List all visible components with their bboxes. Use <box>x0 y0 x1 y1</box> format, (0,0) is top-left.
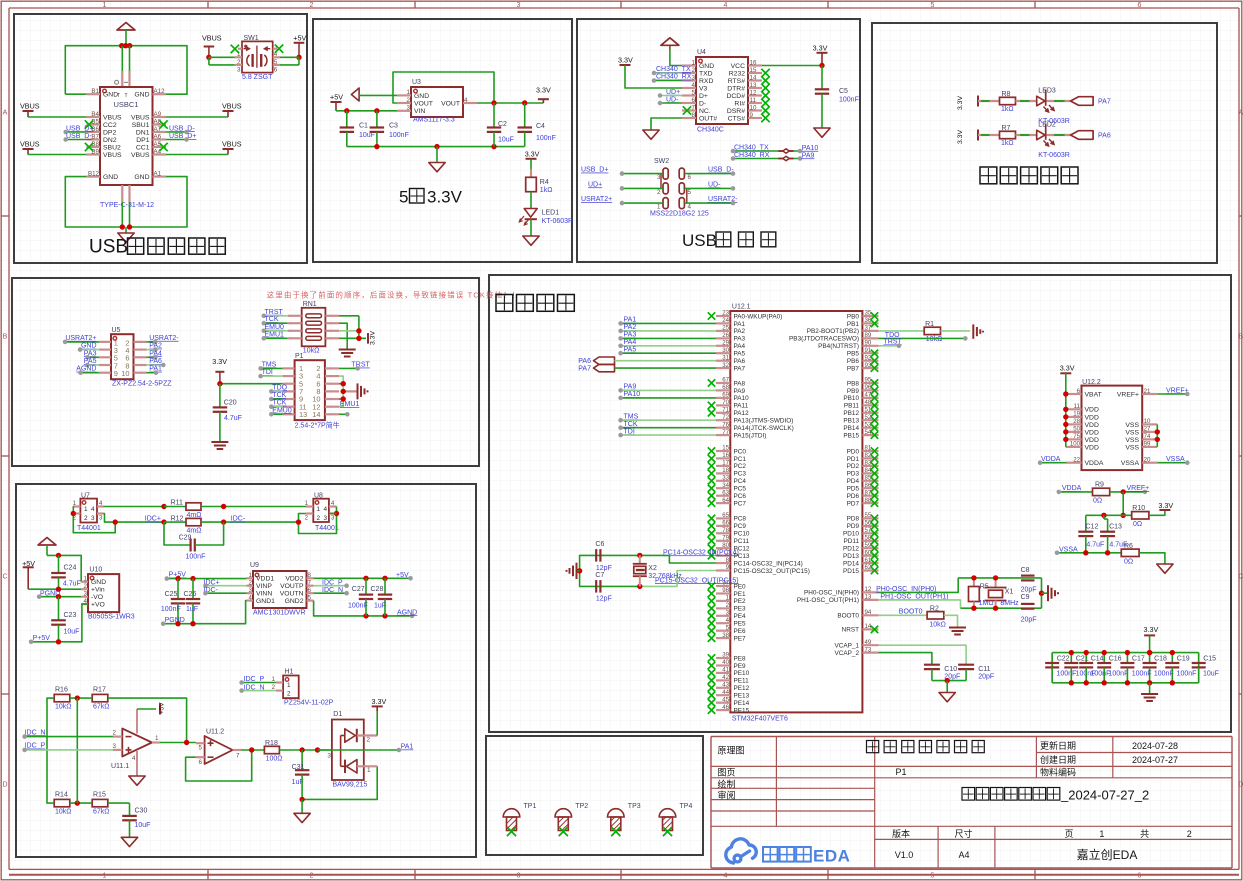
junction <box>1121 489 1126 494</box>
svg-text:PA4: PA4 <box>734 343 746 350</box>
wire pin2 <box>357 734 377 736</box>
svg-text:PA14(JTCK-SWCLK): PA14(JTCK-SWCLK) <box>734 425 794 432</box>
svg-text:C8: C8 <box>1021 567 1030 574</box>
svg-text:9: 9 <box>750 112 754 119</box>
svg-text:NRST: NRST <box>842 627 859 634</box>
capacitor C21 <box>1064 662 1078 664</box>
svg-text:V3: V3 <box>699 85 708 92</box>
wire <box>393 72 494 103</box>
wire <box>280 64 299 66</box>
pin 12 DCD# <box>748 94 762 96</box>
wire <box>341 749 399 751</box>
pin 91 PB5 <box>862 352 878 354</box>
no-connect <box>708 470 715 477</box>
svg-text:C18: C18 <box>1154 655 1167 662</box>
svg-text:66: 66 <box>722 520 729 527</box>
capacitor C30 <box>122 815 137 817</box>
svg-text:9: 9 <box>114 369 118 378</box>
svg-text:PD7: PD7 <box>847 500 860 507</box>
pin 1 VDD1 <box>247 577 254 579</box>
wire <box>125 30 127 46</box>
svg-text:PD4: PD4 <box>847 478 860 485</box>
junction <box>1121 513 1126 518</box>
crystal X2 <box>639 555 641 563</box>
pin 25 PA2 <box>716 330 730 332</box>
pin 2 <box>235 56 242 58</box>
wire <box>944 615 958 627</box>
svg-text:USRAT2+: USRAT2+ <box>65 335 96 342</box>
wire <box>625 65 682 88</box>
pin 3 VINN <box>247 592 254 594</box>
svg-text:VSS: VSS <box>1125 422 1139 429</box>
svg-text:VIN: VIN <box>414 108 425 115</box>
junction <box>1101 513 1106 518</box>
wire <box>684 202 733 204</box>
svg-text:PB10: PB10 <box>843 395 859 402</box>
no-connect <box>708 545 715 552</box>
svg-text:C16: C16 <box>1109 655 1122 662</box>
pin 68 PA9 <box>716 389 730 391</box>
svg-text:A6: A6 <box>154 133 162 140</box>
wire <box>47 555 81 581</box>
svg-text:3: 3 <box>327 753 331 760</box>
svg-text:1: 1 <box>249 572 253 579</box>
junction <box>356 336 361 341</box>
pin 1 <box>238 48 242 50</box>
svg-text:5.8 ZSGT: 5.8 ZSGT <box>242 74 273 81</box>
ground sideways <box>576 563 578 579</box>
svg-text:PE12: PE12 <box>734 685 750 692</box>
pin 32 PA7 <box>716 367 730 369</box>
svg-text:绘制: 绘制 <box>718 778 736 789</box>
capacitor C12 <box>1078 531 1093 533</box>
no-connect <box>708 605 715 613</box>
svg-text:4: 4 <box>324 506 328 513</box>
svg-text:PE10: PE10 <box>734 670 750 677</box>
svg-text:T: T <box>117 93 120 99</box>
wire <box>87 356 99 358</box>
svg-text:DP2: DP2 <box>103 129 116 136</box>
pin 11 <box>283 406 295 408</box>
svg-text:B: B <box>1239 334 1243 341</box>
pin 67 PA8 <box>716 382 730 384</box>
svg-text:TRST: TRST <box>352 362 371 369</box>
wire <box>931 669 933 681</box>
svg-text:PE3: PE3 <box>734 606 747 613</box>
junction <box>637 553 642 558</box>
wire <box>192 603 194 623</box>
junction <box>56 553 61 558</box>
svg-text:3.3V: 3.3V <box>618 55 633 64</box>
junction <box>382 576 387 581</box>
svg-text:共: 共 <box>1140 829 1149 839</box>
svg-text:67kΩ: 67kΩ <box>93 808 110 815</box>
svg-text:审阅: 审阅 <box>718 790 736 801</box>
wire <box>359 94 397 96</box>
pin 6 D- <box>682 102 696 104</box>
svg-text:C13: C13 <box>1109 524 1122 531</box>
svg-text:R17: R17 <box>93 686 106 693</box>
svg-text:1uF: 1uF <box>186 606 198 613</box>
svg-text:VOUTP: VOUTP <box>280 583 304 590</box>
ground <box>121 837 137 846</box>
pin <box>288 315 302 317</box>
svg-text:P1: P1 <box>895 767 906 777</box>
junction <box>341 389 346 394</box>
svg-text:PA3: PA3 <box>734 336 746 343</box>
wire <box>530 192 532 209</box>
svg-text:PC0: PC0 <box>734 448 747 455</box>
pin 4 <box>97 505 104 507</box>
wire <box>108 698 187 742</box>
wire <box>164 522 191 545</box>
pin 3 <box>235 64 242 66</box>
svg-text:R11: R11 <box>171 500 183 507</box>
svg-text:17: 17 <box>722 460 729 467</box>
pin 13 <box>283 413 295 415</box>
section title cjk <box>410 189 425 204</box>
pin 8 power <box>136 709 138 734</box>
wire <box>1157 462 1187 464</box>
wire <box>879 578 959 593</box>
svg-text:3: 3 <box>657 174 661 181</box>
pin 8 <box>325 390 339 392</box>
svg-text:U12.1: U12.1 <box>732 304 751 311</box>
USB-serial box <box>577 19 860 262</box>
pin 27 VSS <box>1142 431 1157 433</box>
svg-text:TDI: TDI <box>262 369 273 376</box>
svg-text:6: 6 <box>692 97 696 104</box>
svg-text:10kΩ: 10kΩ <box>929 621 946 628</box>
pin 2 <box>306 512 313 514</box>
pin 4 GND1 <box>247 599 254 601</box>
svg-text:3.3V: 3.3V <box>427 188 463 207</box>
wire <box>524 132 526 147</box>
svg-text:B12: B12 <box>88 170 100 177</box>
wire <box>1051 653 1053 663</box>
wire <box>365 599 367 616</box>
pin 38 PE7 <box>716 637 730 639</box>
pin 2 <box>113 735 122 737</box>
doc name cjk <box>867 741 879 753</box>
svg-text:100nF: 100nF <box>1109 671 1129 678</box>
svg-text:PA11: PA11 <box>734 403 749 410</box>
svg-text:R4: R4 <box>540 179 549 186</box>
svg-text:-VO: -VO <box>91 594 103 601</box>
pin 57 PD10 <box>862 532 878 534</box>
no-connect <box>871 537 878 545</box>
svg-text:70: 70 <box>722 399 729 406</box>
svg-text:PD14: PD14 <box>843 560 859 567</box>
junction <box>374 108 379 113</box>
svg-text:PA9: PA9 <box>734 388 746 395</box>
pin 52 PB13 <box>862 419 878 421</box>
pin 10 VSS <box>1142 423 1157 425</box>
ground <box>429 163 445 172</box>
wire <box>1122 492 1124 515</box>
capacitor C26 <box>186 598 200 600</box>
svg-text:RXD: RXD <box>699 78 713 85</box>
pin 87 PD6 <box>862 495 878 497</box>
svg-text:2: 2 <box>1187 829 1192 839</box>
svg-text:DSR#: DSR# <box>727 108 745 115</box>
pin 94 BOOT0 <box>862 614 878 616</box>
svg-text:DN1: DN1 <box>136 129 150 136</box>
svg-text:VBUS: VBUS <box>222 140 242 149</box>
no-connect <box>708 537 715 545</box>
svg-text:5: 5 <box>688 189 692 196</box>
svg-text:5: 5 <box>692 89 696 96</box>
svg-text:2: 2 <box>407 97 411 104</box>
svg-text:PA1: PA1 <box>624 317 637 324</box>
no-connect <box>708 312 715 319</box>
svg-text:PC1: PC1 <box>734 456 747 463</box>
pin 20 VSSA <box>1142 462 1157 464</box>
svg-text:USBC1: USBC1 <box>113 100 138 109</box>
svg-text:版本: 版本 <box>892 828 910 839</box>
wire <box>1198 667 1200 682</box>
svg-text:图页: 图页 <box>718 767 736 777</box>
svg-text:5: 5 <box>308 594 312 601</box>
svg-text:VBUS: VBUS <box>131 114 150 121</box>
junction <box>1155 429 1160 434</box>
svg-text:PB9: PB9 <box>847 388 860 395</box>
svg-text:PE7: PE7 <box>734 635 747 642</box>
pin 5 D+ <box>682 94 696 96</box>
no-connect <box>708 447 715 454</box>
no-connect <box>871 409 878 416</box>
svg-text:3.3V: 3.3V <box>813 43 828 52</box>
pin 16 PC1 <box>716 457 730 459</box>
wire <box>621 389 716 391</box>
wire <box>39 596 81 598</box>
svg-text:VCC: VCC <box>731 63 745 70</box>
wire <box>87 364 99 366</box>
wire <box>318 749 341 751</box>
svg-text:10kΩ: 10kΩ <box>55 703 72 710</box>
svg-text:PD5: PD5 <box>847 486 860 493</box>
pin 6 <box>134 356 147 358</box>
svg-text:VBUS: VBUS <box>20 140 40 149</box>
no-connect <box>761 84 769 92</box>
svg-text:OUT#: OUT# <box>699 115 717 122</box>
svg-text:45: 45 <box>722 696 729 703</box>
pin B5 CC2 <box>86 123 100 125</box>
svg-text:STM32F407VET6: STM32F407VET6 <box>732 716 788 723</box>
svg-text:10uF: 10uF <box>1203 671 1219 678</box>
wire <box>1070 667 1072 682</box>
svg-text:C27: C27 <box>352 586 365 593</box>
svg-text:3: 3 <box>237 66 241 73</box>
pin 69 PA10 <box>716 397 730 399</box>
svg-text:RTS#: RTS# <box>728 78 745 85</box>
svg-text:PA2: PA2 <box>734 328 746 335</box>
capacitor C24 <box>51 572 66 574</box>
pin 88 PD7 <box>862 502 878 504</box>
svg-text:VBAT: VBAT <box>1085 391 1102 398</box>
svg-text:TP4: TP4 <box>680 803 693 810</box>
capacitor C7 <box>595 580 597 593</box>
pin 30 PA5 <box>716 352 730 354</box>
svg-text:物料编码: 物料编码 <box>1040 766 1076 777</box>
svg-text:PA12: PA12 <box>734 410 750 417</box>
pin 31 PA6 <box>716 360 730 362</box>
wire <box>166 139 187 141</box>
svg-text:PB13: PB13 <box>843 418 859 425</box>
junction <box>993 606 998 611</box>
pin 40 PE9 <box>716 664 730 666</box>
svg-text:UD-: UD- <box>708 181 721 188</box>
svg-text:U3: U3 <box>412 79 421 86</box>
ground <box>949 627 966 629</box>
wire <box>941 330 971 332</box>
pin 56 PD9 <box>862 525 878 527</box>
pin B12 GND <box>86 176 100 178</box>
svg-text:PA6: PA6 <box>1098 132 1111 139</box>
svg-text:79: 79 <box>722 535 729 542</box>
svg-text:A12: A12 <box>154 88 166 95</box>
pin 18 PC3 <box>716 472 730 474</box>
no-connect <box>708 634 715 642</box>
wire <box>65 341 99 343</box>
wire <box>577 570 580 572</box>
svg-text:B9: B9 <box>91 148 99 155</box>
svg-text:15: 15 <box>750 67 757 74</box>
junction <box>249 747 254 752</box>
svg-text:R8: R8 <box>1002 91 1011 98</box>
svg-text:PB8: PB8 <box>847 380 860 387</box>
pin 84 PD3 <box>862 472 878 474</box>
svg-text:U5: U5 <box>112 327 121 334</box>
switch SW1 <box>242 41 273 72</box>
svg-text:1: 1 <box>287 682 291 689</box>
junction <box>434 144 439 149</box>
svg-text:PC15-OSC32_OUT(PC15): PC15-OSC32_OUT(PC15) <box>734 568 810 575</box>
wire <box>1149 667 1151 682</box>
svg-text:C12: C12 <box>1086 524 1099 531</box>
resistor R4 <box>530 170 532 178</box>
svg-text:GND: GND <box>103 92 118 99</box>
svg-text:PD8: PD8 <box>847 516 860 523</box>
wire <box>25 749 113 751</box>
no-connect <box>871 545 878 552</box>
wire <box>1103 515 1105 519</box>
svg-text:PD10: PD10 <box>843 531 859 538</box>
capacitor C25 <box>171 598 185 600</box>
svg-text:C22: C22 <box>1057 655 1070 662</box>
svg-text:UD+: UD+ <box>588 181 602 188</box>
svg-text:C9: C9 <box>1021 594 1030 601</box>
wire <box>302 766 377 799</box>
pin 35 PB0 <box>862 315 878 317</box>
svg-text:C31: C31 <box>292 764 305 771</box>
junction <box>127 224 132 229</box>
wire <box>640 571 716 587</box>
svg-text:PA1: PA1 <box>401 744 414 751</box>
no-connect <box>708 522 715 530</box>
pin 71 PA12 <box>716 412 730 414</box>
svg-text:11: 11 <box>750 97 757 104</box>
svg-text:5: 5 <box>931 873 935 880</box>
svg-text:76: 76 <box>722 421 729 428</box>
wire <box>339 330 359 332</box>
capacitor C2 <box>487 126 501 128</box>
svg-text:78: 78 <box>722 527 729 534</box>
no-connect <box>708 627 715 634</box>
pin 1 <box>283 367 295 369</box>
svg-text:USB_D-: USB_D- <box>708 167 734 174</box>
pin 8 VDD2 <box>307 577 314 579</box>
pin S2 <box>128 71 130 87</box>
svg-text:R14: R14 <box>55 791 68 798</box>
svg-text:28: 28 <box>1073 418 1080 425</box>
svg-text:5: 5 <box>931 2 935 9</box>
diamond marker <box>778 158 783 160</box>
pin 12 PH0-OSC_IN(PH0) <box>862 591 878 593</box>
ground <box>294 813 310 822</box>
wire <box>147 341 156 343</box>
wire <box>762 65 822 67</box>
svg-text:PA3: PA3 <box>624 332 637 339</box>
wire <box>339 323 347 348</box>
wire <box>879 653 932 665</box>
svg-text:20pF: 20pF <box>1021 586 1037 593</box>
svg-text:PE4: PE4 <box>734 613 747 620</box>
wire <box>358 316 360 339</box>
svg-text:3.3V: 3.3V <box>957 130 964 144</box>
pin 1 PE2 <box>716 600 730 602</box>
wire <box>58 597 60 621</box>
junction <box>334 511 339 516</box>
USB power box <box>14 14 307 263</box>
wire <box>192 579 194 599</box>
svg-text:6: 6 <box>274 66 278 73</box>
wire <box>209 56 235 58</box>
pin 90 PB4(NJTRST) <box>862 345 878 347</box>
no-connect <box>708 612 715 619</box>
no-connect A5 <box>159 143 167 151</box>
no-connect <box>871 455 878 462</box>
pin 2 TXD <box>682 72 696 74</box>
svg-text:PA1: PA1 <box>734 321 746 328</box>
wire <box>932 680 966 682</box>
svg-text:4: 4 <box>688 204 692 211</box>
svg-text:C11: C11 <box>978 666 990 673</box>
svg-text:LED1: LED1 <box>542 210 560 217</box>
svg-text:PD6: PD6 <box>847 493 860 500</box>
capacitor C9 <box>1021 603 1035 605</box>
junction <box>945 678 950 683</box>
no-connect <box>708 677 715 685</box>
svg-text:0Ω: 0Ω <box>1093 498 1102 505</box>
svg-text:PC14-OSC32_IN(PC14): PC14-OSC32_IN(PC14) <box>734 560 803 567</box>
capacitor C14 <box>1079 662 1093 664</box>
svg-text:PC11: PC11 <box>734 538 750 545</box>
wire <box>1016 134 1037 136</box>
wire <box>1042 592 1048 594</box>
svg-text:VDD: VDD <box>1085 444 1099 451</box>
wire <box>1051 667 1053 682</box>
pin 3 VIN <box>397 110 411 112</box>
svg-text:IDC-: IDC- <box>231 516 246 523</box>
pin 15 R232 <box>748 72 762 74</box>
svg-text:3.3V: 3.3V <box>536 86 551 95</box>
capacitor C22 <box>1045 662 1059 664</box>
MCU box <box>489 275 1231 732</box>
svg-text:GND: GND <box>81 343 97 350</box>
wire <box>733 150 800 152</box>
junction <box>1069 650 1074 655</box>
